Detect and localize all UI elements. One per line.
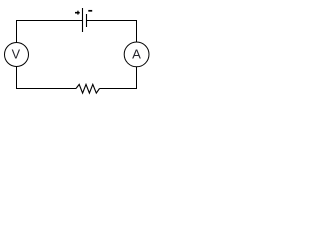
resistor R1 xyxy=(76,84,100,93)
battery + label xyxy=(75,11,80,15)
wire top-left segment xyxy=(16,20,83,22)
svg-text:V: V xyxy=(12,47,21,61)
wire left upper xyxy=(16,20,18,43)
wire right lower xyxy=(136,67,138,90)
battery B1 positive plate xyxy=(82,8,84,32)
svg-text:A: A xyxy=(132,46,141,61)
voltmeter circle xyxy=(5,43,29,67)
wire top-right segment xyxy=(87,20,138,22)
wire right upper xyxy=(136,20,138,43)
battery B1 negative plate xyxy=(86,14,88,27)
wire left lower xyxy=(16,67,18,90)
battery - label xyxy=(88,10,92,12)
wire bottom-left segment xyxy=(16,88,76,90)
wire bottom-right segment xyxy=(100,88,138,90)
ammeter circle xyxy=(124,42,149,67)
